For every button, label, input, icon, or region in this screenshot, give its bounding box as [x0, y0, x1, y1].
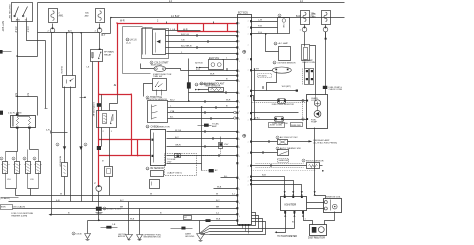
wire red EFI relay down: [98, 62, 100, 186]
svg-text:AMP: AMP: [212, 125, 217, 128]
svg-text:4-R: 4-R: [56, 200, 60, 202]
vsv EGR: [209, 60, 224, 70]
svg-text:W-R: W-R: [226, 99, 231, 101]
wire time switch bottoms: [156, 90, 158, 96]
connector marks EGR: [196, 67, 198, 69]
wire igniter to coil 1: [307, 202, 325, 204]
svg-text:CONNECTOR: CONNECTOR: [156, 126, 170, 128]
wire EGR VSV left: [199, 67, 209, 69]
wire LH out 3: [166, 41, 238, 43]
igniter: [281, 197, 307, 211]
svg-text:4-J: 4-J: [232, 193, 235, 195]
ground symbol left: [85, 234, 91, 239]
ignition switch SW1: [12, 3, 33, 22]
wire injector bottoms join 2: [28, 188, 39, 190]
wire noise filter 13 down: [188, 89, 190, 102]
svg-text:2-J: 2-J: [216, 212, 219, 214]
svg-text:VSV: VSV: [167, 161, 172, 163]
wire bottom bus 4: [52, 214, 237, 216]
connector marks mid: [195, 89, 197, 91]
svg-text:2-J: 2-J: [169, 1, 172, 3]
svg-text:2-J B-W: 2-J B-W: [171, 16, 180, 18]
fuse IGN: [322, 11, 331, 25]
fuel pump resistor inline: [278, 99, 286, 104]
svg-text:LH 1.6: LH 1.6: [130, 40, 137, 42]
wire ECU stub 177.6: [221, 177, 238, 179]
svg-text:DISTRIBUTOR: DISTRIBUTOR: [308, 236, 325, 239]
label knock sensor: [302, 159, 305, 162]
svg-text:B2 SENSOR: B2 SENSOR: [151, 168, 164, 170]
svg-text:TO TACHOMETER: TO TACHOMETER: [277, 235, 297, 238]
wire red link 2: [203, 24, 205, 32]
svg-text:B-B: B-B: [262, 175, 266, 177]
label auto thermo: [276, 147, 279, 150]
connector blob bottom right: [106, 226, 111, 229]
relay circuit opening: [97, 111, 117, 128]
svg-text:CHECK CONN: CHECK CONN: [329, 89, 343, 91]
wire resistor right down: [109, 177, 111, 196]
wire ECU stub 80.3: [216, 80, 238, 82]
wire bottom bus W: [16, 195, 237, 197]
svg-text:RESISTOR: RESISTOR: [58, 156, 60, 167]
wire fuse EFI down: [304, 32, 306, 47]
svg-text:(CALIF ONLY): (CALIF ONLY): [168, 172, 182, 175]
wire top bus 2-J: [38, 2, 345, 4]
fusible link FL1 AM1: [49, 9, 58, 23]
svg-text:JE: JE: [114, 85, 117, 87]
wire EFI bypass to pump: [310, 46, 316, 95]
wire cold start left: [141, 64, 155, 69]
wire cold start to ECU: [181, 70, 238, 72]
wire ground 1: [128, 202, 130, 235]
connector below fuse IGN: [325, 25, 327, 28]
connector fuel pump round: [96, 186, 102, 192]
svg-text:OXYGEN SENSOR: OXYGEN SENSOR: [277, 63, 296, 65]
wire knock right stub: [320, 165, 323, 167]
wire EFI relay coil ground: [92, 62, 94, 202]
vsv small: [219, 143, 223, 149]
wire left vertical 4-R: [51, 33, 53, 215]
wire check conn out 2: [167, 138, 238, 140]
wire time switch left: [144, 84, 153, 97]
svg-text:JOINT CONN: JOINT CONN: [270, 124, 283, 126]
svg-text:B2-2: B2-2: [170, 99, 175, 101]
knock sensor: [307, 163, 320, 169]
wire ECU to oxygen sensor: [252, 70, 273, 72]
wire red +B bus: [118, 23, 238, 25]
svg-text:B2 R-W: B2 R-W: [195, 63, 204, 65]
wire vertical right of ECU: [254, 70, 256, 120]
svg-text:SHIELDED: SHIELDED: [279, 160, 290, 162]
connector below FL1: [52, 24, 54, 29]
label A/C amp: [274, 42, 277, 45]
svg-text:P-B: P-B: [258, 26, 262, 28]
wire mid vertical 81: [81, 33, 83, 202]
junction block boundary: [123, 27, 151, 74]
vsv A/C idle up: [278, 140, 288, 145]
wire ECU to igniter 2: [252, 181, 294, 197]
wire bottom bus B-Y: [9, 201, 237, 203]
resistor solenoid: [62, 163, 68, 177]
wire bottom bus 3: [23, 208, 237, 210]
svg-text:EGR: EGR: [1, 207, 6, 209]
wire red +B1 bus: [178, 31, 238, 33]
svg-text:C/OPN: C/OPN: [111, 114, 113, 121]
label throttle position sensor: [146, 96, 149, 99]
injector 4: [38, 150, 40, 162]
connector ticks on wires: [196, 34, 197, 37]
label EGR VSV calif bottom: [1, 205, 13, 210]
svg-text:5 W-B: 5 W-B: [75, 234, 82, 236]
ECU right pins: [250, 20, 252, 22]
wire water temp left: [198, 89, 209, 91]
svg-text:APRON: APRON: [118, 235, 126, 238]
wire ECU to check conn 2: [252, 27, 278, 29]
svg-text:GR-R: GR-R: [175, 145, 181, 147]
igniter bottom pins: [284, 211, 286, 213]
svg-text:A/C IDLE UP VSV: A/C IDLE UP VSV: [280, 136, 298, 139]
connector LH double line: [142, 28, 144, 55]
wire ECU to knock sensor: [252, 165, 307, 167]
wire ECU stub 75.4: [189, 75, 238, 77]
wire wrap line 1: [210, 213, 256, 226]
svg-text:4-R: 4-R: [46, 129, 50, 131]
component inline lower: [275, 117, 284, 122]
wire LH out 5: [166, 53, 238, 55]
svg-text:W-R (B2T): W-R (B2T): [282, 86, 291, 88]
wire ground 2: [139, 209, 141, 235]
wire ignition switch AM1 down: [17, 22, 19, 116]
wire igniter pin 3 to distributor: [304, 213, 313, 225]
wire ECU lower to pump: [252, 119, 307, 121]
auto thermo switch: [278, 150, 289, 156]
label A/C idle up VSV: [276, 136, 279, 139]
wire igniter to tach: [277, 213, 286, 233]
ECU left pins: [236, 22, 238, 24]
noise filter blob B: [79, 146, 82, 150]
svg-text:GROUND: GROUND: [185, 236, 195, 238]
wire grey below red junction: [117, 95, 119, 104]
svg-text:TIME SW: TIME SW: [153, 76, 163, 78]
dotted ground line mid: [252, 170, 316, 172]
svg-text:W 2-B: W 2-B: [175, 130, 182, 132]
label HT B2T: [258, 74, 272, 78]
wire c/opn relay out 2: [109, 128, 111, 167]
throttle position sensor: [148, 101, 168, 123]
wire check conn out 4: [167, 155, 238, 157]
wire ECU to igniter 3: [252, 185, 302, 197]
connector marks igniter pins: [284, 191, 286, 193]
connector pump wire 2: [302, 118, 304, 120]
svg-text:AM1: AM1: [59, 15, 64, 18]
wire injector bottoms join 1: [6, 188, 17, 190]
svg-text:AUTO THERMO S/W: AUTO THERMO S/W: [280, 147, 302, 150]
svg-text:STJ: STJ: [196, 69, 200, 71]
left margin connector 2: [0, 111, 3, 115]
wire FL block to injectors 1: [17, 129, 19, 152]
wire red to check connector pin 2: [99, 155, 151, 157]
label noise filter 13: [195, 83, 198, 86]
ground symbol main: [197, 234, 205, 240]
wire LH out 2: [166, 35, 238, 37]
connector small below: [150, 180, 160, 189]
label noise filter 4: [103, 207, 106, 210]
svg-text:2.0L FL MAIN: 2.0L FL MAIN: [8, 111, 22, 114]
injector 1: [5, 152, 7, 162]
wire AM1 bus: [38, 32, 100, 34]
wire calif dashed link: [197, 155, 219, 157]
wire b2 connector: [202, 170, 209, 172]
wire bottom bus 5: [88, 220, 237, 222]
svg-text:B-Y: B-Y: [120, 200, 124, 202]
wire oxygen heater return: [267, 72, 277, 91]
shield dashes knock: [256, 163, 304, 165]
svg-text:IGNITER: IGNITER: [285, 203, 297, 207]
wire coil to distributor: [325, 212, 335, 225]
resistor box right: [105, 167, 113, 177]
wire ECU stub 188.3: [214, 188, 238, 190]
wire red main vertical: [117, 24, 119, 95]
wire ECU stub 112.9: [252, 112, 299, 114]
wire check conn out W: [167, 131, 238, 133]
wire LH out 4: [166, 47, 238, 49]
wire dashed vertical right of ox: [302, 69, 304, 85]
wire red link 1: [177, 24, 179, 32]
wire ECU to pump resistor: [252, 96, 307, 101]
svg-text:IG: IG: [25, 20, 28, 22]
wire c/opn relay out 1: [101, 128, 103, 147]
svg-text:1 L-B: 1 L-B: [170, 29, 176, 31]
connector LH box: [153, 30, 166, 55]
svg-text:W-B: W-B: [217, 187, 222, 189]
tick connector x81: [80, 97, 86, 99]
svg-text:A.C. AMP: A.C. AMP: [279, 42, 289, 45]
svg-text:W-R: W-R: [120, 21, 125, 23]
wire c/opn relay feed: [101, 95, 103, 111]
svg-text:B2-2 BR-B: B2-2 BR-B: [181, 46, 192, 48]
ground symbol 1: [126, 235, 133, 240]
connector blob bottom 1: [181, 227, 185, 230]
svg-text:W-R: W-R: [210, 74, 215, 76]
oxygen sensor: [272, 67, 291, 73]
relay EFI main: [91, 50, 103, 62]
label B2 sensor: [146, 167, 149, 170]
wire check box pin down 1: [64, 87, 66, 163]
wire injector feed bus right: [30, 149, 39, 151]
junction box shielded 2: [291, 123, 303, 127]
wire injector group 2 down: [30, 189, 32, 196]
left margin connector 1: [0, 50, 3, 54]
vsv EGR calif: [165, 154, 197, 176]
wire ground W-B left: [87, 221, 89, 234]
wire pump box left dashes: [252, 102, 307, 104]
connector LH outer box: [142, 29, 169, 59]
connector below FL2: [99, 24, 101, 29]
svg-text:CHECK: CHECK: [60, 66, 62, 74]
wire top bus drop to AM1: [37, 3, 39, 57]
svg-text:B-Y: B-Y: [216, 200, 220, 202]
wire FL2 to EFI relay: [99, 34, 101, 50]
label engine coolant temp sensor: [200, 82, 203, 85]
wire TPS out VTA2: [168, 112, 234, 114]
wire check conn out 5: [167, 163, 202, 165]
wire red to check connector pin 1: [99, 139, 151, 141]
wire left vertical 45.9: [45, 41, 47, 109]
svg-text:4 B-L: 4 B-L: [255, 117, 261, 119]
connector fuel pump check pair: [305, 69, 309, 85]
fusible link FL2 AM2 30A: [96, 9, 105, 23]
injector 2: [16, 152, 18, 162]
svg-text:EFI MAIN: EFI MAIN: [104, 51, 114, 54]
svg-text:B-R 1-B: B-R 1-B: [181, 34, 189, 36]
wire TPS out IDL: [168, 107, 238, 109]
svg-text:HEATER (CMH): HEATER (CMH): [11, 214, 27, 217]
wire IGN to coil vertical: [314, 128, 316, 196]
wire vertical 201.6: [201, 108, 203, 171]
connector check box 5: [63, 76, 76, 88]
ignition coil: [324, 199, 342, 213]
label LH 1.6: [126, 38, 129, 41]
fuel pump motor: [314, 111, 321, 118]
svg-text:HT (B2T): HT (B2T): [259, 75, 267, 77]
connector blob bottom 2: [206, 219, 211, 222]
svg-text:Y-B: Y-B: [181, 39, 185, 41]
pump box left pin marks: [306, 100, 308, 102]
label check connector right: [278, 14, 281, 17]
svg-text:2 B-R: 2 B-R: [14, 27, 16, 33]
svg-text:CHK: CHK: [282, 24, 284, 29]
ECU main box: [238, 15, 252, 225]
cold start injector 9: [154, 66, 166, 72]
tick marks on red bus: [166, 22, 168, 24]
wire pump internal: [317, 107, 319, 111]
fuel pump resistor vertical box: [302, 45, 310, 61]
wire ECU to check conn 3: [252, 33, 278, 35]
wire y132 branch: [52, 132, 68, 134]
wire ECU to check conn 1: [252, 21, 278, 23]
svg-text:BR: BR: [120, 206, 123, 208]
wire noise filter down: [98, 211, 100, 221]
distributor: [310, 225, 327, 236]
wire FL block to injectors 2: [29, 129, 31, 150]
svg-text:P-G: P-G: [258, 32, 262, 34]
wire red link 3: [227, 24, 229, 32]
connector pump top: [323, 86, 328, 89]
svg-text:(2-J): (2-J): [126, 42, 131, 44]
wire below connector: [98, 192, 100, 207]
wire fuse IGN down: [325, 32, 327, 95]
junction connector J/C: [184, 216, 192, 220]
svg-text:KNOCK SENSOR: KNOCK SENSOR: [306, 160, 324, 162]
ground symbol 2: [137, 235, 143, 240]
wire mid vertical 188.8: [188, 59, 190, 83]
svg-text:VSV: VSV: [224, 144, 229, 146]
wire red ladder vertical 2: [137, 140, 139, 156]
wire A/C VSV to arrow: [288, 141, 312, 143]
check connector mid: [151, 130, 166, 166]
wire ground 3: [199, 221, 201, 234]
svg-text:B-Y: B-Y: [175, 137, 179, 139]
svg-text:(2L-TE A/C FUEL PRESS): (2L-TE A/C FUEL PRESS): [314, 141, 338, 144]
wire injector feed branch: [18, 96, 38, 98]
wire ECU to pump check: [252, 90, 298, 92]
connector block on red wire 2: [97, 103, 101, 107]
wire resistor v down: [304, 62, 306, 69]
fusible link block FL MAIN: [11, 116, 36, 128]
noise filter condenser 4: [96, 207, 102, 211]
wire LH out 1: [166, 30, 201, 32]
wire ECU to igniter 1: [252, 177, 285, 197]
fuel pump box: [307, 95, 328, 129]
wire wrap line 2: [210, 228, 295, 230]
svg-text:PUMP: PUMP: [311, 121, 318, 123]
wire red relay branch: [99, 94, 132, 96]
wire ECU stub 59: [223, 59, 238, 61]
svg-text:CONN: CONN: [311, 100, 317, 102]
svg-text:J/C: J/C: [184, 217, 188, 219]
wire TPS out E2: [168, 118, 234, 120]
label oxygen sensor: [273, 61, 276, 64]
svg-text:6 B-Y: 6 B-Y: [26, 27, 28, 33]
label cold start injector: [150, 61, 153, 64]
svg-text:B-Y: B-Y: [102, 35, 106, 37]
svg-text:NEIGHBORHOOD: NEIGHBORHOOD: [144, 237, 162, 239]
wire resistor down: [64, 177, 66, 196]
connector B2 sensor: [151, 171, 164, 177]
junction dots on red path: [116, 22, 118, 24]
wire ECU to A/C amp: [266, 34, 279, 52]
label check connector 10: [146, 125, 149, 128]
fuel pump check circle: [314, 100, 320, 106]
wire injector feed bus left: [6, 151, 18, 153]
wire igniter to coil 2: [307, 208, 325, 210]
connector block on red wire: [97, 146, 101, 150]
svg-text:2-J: 2-J: [300, 1, 303, 3]
wire injector group 1 down: [15, 189, 17, 196]
svg-text:W-B: W-B: [216, 219, 221, 221]
connector B2 mid: [209, 169, 214, 172]
svg-text:IGNITION SW: IGNITION SW: [8, 5, 10, 20]
svg-text:BR: BR: [216, 206, 219, 208]
noise filter blob A: [63, 146, 66, 150]
wire bus B-W: [111, 17, 345, 19]
svg-text:VTA: VTA: [170, 110, 175, 113]
connector pump wire: [302, 99, 304, 101]
wire c/opn relay contact feed: [110, 104, 118, 111]
wire wrap line 4: [210, 222, 266, 235]
svg-text:ECT ECU: ECT ECU: [238, 12, 248, 14]
igniter bottom connector marks: [284, 213, 286, 215]
wire vsv small up: [220, 137, 222, 143]
connector below fuse EFI: [304, 25, 306, 28]
junction box shielded 1: [269, 123, 285, 128]
wire pump dashed vertical: [302, 100, 304, 121]
noise filter 13: [187, 82, 191, 88]
injector 3: [27, 150, 29, 162]
connector to A/C: [198, 125, 205, 127]
wire check box pins up: [66, 33, 68, 76]
check connector right: [278, 18, 290, 34]
wire ECU to A/C VSV: [252, 141, 278, 143]
svg-text:SHIELDED: SHIELDED: [291, 125, 302, 127]
ECU internal circle: [243, 50, 246, 53]
wire wrap line 3: [210, 219, 263, 232]
wire check box pin down 2: [70, 87, 72, 202]
ECU bottom pins: [239, 224, 241, 226]
svg-text:AM2: AM2: [85, 15, 89, 18]
wire ignition switch IG down: [27, 22, 46, 41]
wires fan to main ground: [200, 226, 210, 234]
